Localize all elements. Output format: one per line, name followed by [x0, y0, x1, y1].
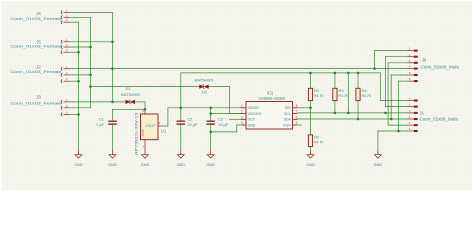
wire PGO stub	[298, 124, 302, 126]
svg-text:GND: GND	[206, 163, 215, 167]
svg-text:GND: GND	[177, 163, 186, 167]
diode D2 BAT54WS	[126, 100, 135, 104]
wire IC GND riser	[236, 125, 238, 132]
svg-text:GND: GND	[248, 123, 256, 127]
connector J2 pin 1	[61, 67, 62, 70]
junction J2.3/bus78	[77, 80, 80, 83]
lead C2 top	[180, 108, 182, 121]
wire J2.2	[70, 74, 91, 76]
lead C3 top	[210, 108, 212, 121]
svg-text:1: 1	[241, 104, 243, 108]
connector J1 pin 2	[408, 106, 414, 108]
IC1 pin 3 (OUT)	[241, 118, 246, 120]
connector J6 pin 6	[408, 80, 414, 82]
wire DIR to R1/R2	[298, 107, 311, 109]
connector J3 pin 1	[61, 100, 62, 103]
lead R3 top	[334, 73, 336, 88]
wire J6 pin4 from rail	[375, 68, 408, 70]
wire J5.2	[70, 46, 91, 48]
svg-text:GND: GND	[306, 163, 315, 167]
wire J4.1 to bus112	[70, 11, 113, 13]
wire vertical rail branch	[347, 73, 349, 113]
svg-text:BAT54WS: BAT54WS	[195, 78, 214, 83]
junction SDA riser	[390, 118, 393, 121]
junction J5.2/bus90	[89, 46, 92, 49]
svg-text:R4.7K: R4.7K	[362, 93, 372, 98]
svg-text:PGO: PGO	[283, 123, 291, 127]
resistor R1 body	[308, 88, 312, 100]
junction rail/R4	[357, 72, 360, 75]
wire IC GND return	[211, 131, 237, 133]
svg-text:Conn_01x03_Female: Conn_01x03_Female	[10, 44, 62, 49]
junction rail/R1	[309, 72, 312, 75]
junction rail/bus112	[111, 67, 114, 70]
svg-text:GND: GND	[74, 163, 83, 167]
wire J4.3 to bus78	[70, 21, 79, 23]
wire J5.3	[70, 51, 79, 53]
wire J3.3 to bus78	[70, 113, 79, 115]
svg-text:GND: GND	[141, 128, 145, 136]
diode D1 BAT54WS	[200, 85, 209, 89]
junction J2.2/bus90	[89, 74, 92, 77]
wire U1 VOUT out	[164, 125, 168, 127]
ground GND4 (C2)	[177, 151, 184, 158]
wire line2 to IC pin2	[211, 113, 241, 115]
svg-text:R4.7K: R4.7K	[314, 93, 324, 98]
schematic canvas background	[2, 1, 472, 191]
riser J6.5 to SDA	[390, 75, 392, 119]
svg-text:R4.7K: R4.7K	[339, 93, 349, 98]
connector J4 pin 1	[61, 11, 62, 14]
svg-text:C3: C3	[218, 116, 224, 121]
junction U1 VIN node	[144, 108, 147, 111]
svg-text:1 µF: 1 µF	[96, 122, 105, 127]
resistor R2 body	[308, 135, 312, 147]
junction J5.3/bus78	[77, 51, 80, 54]
bus90 vertical	[90, 17, 92, 108]
wire J5.1	[70, 41, 113, 43]
wire SDA row	[298, 118, 408, 120]
wire J6 pin3	[388, 62, 407, 64]
svg-text:BAT54WS: BAT54WS	[121, 92, 140, 97]
svg-text:D1: D1	[202, 90, 208, 95]
svg-text:GND: GND	[141, 163, 150, 167]
wire J1 pin2	[386, 106, 408, 108]
svg-text:Conn_01x03_Female: Conn_01x03_Female	[10, 100, 62, 105]
IC1 pin 8 (DIR)	[293, 107, 298, 109]
junction SCL riser	[384, 112, 387, 115]
connector J1 pin 5	[408, 124, 414, 126]
svg-text:Conn_01x06_Male: Conn_01x06_Male	[421, 65, 460, 70]
lead C1 bottom to GND	[112, 124, 114, 151]
svg-text:J6: J6	[422, 57, 427, 62]
riser J6.3 to J1.5	[387, 63, 389, 125]
junction line1/C2/rail	[180, 107, 183, 110]
IC1 pin 1 (VDD5V)	[241, 107, 246, 109]
wire J4.2 to bus90	[70, 16, 91, 18]
wire J6 pin2	[386, 56, 408, 58]
IC U1? no: IC1 AS5600 body	[246, 102, 293, 130]
IC1 pin 7 (SCL)	[293, 113, 298, 115]
svg-text:Conn_01x03_Female: Conn_01x03_Female	[10, 69, 62, 74]
connector J4 pin 2	[61, 16, 62, 19]
IC1 pin 2 (VDD3V3)	[241, 113, 246, 115]
svg-text:OUT: OUT	[248, 118, 256, 122]
junction J3.1/bus112	[111, 101, 114, 104]
wire into IC pin4	[237, 124, 241, 126]
svg-text:VOUT: VOUT	[145, 124, 155, 128]
junction J6.6/J1.6 gnd row	[397, 130, 400, 133]
connector J6 pin 5	[408, 74, 414, 76]
junction SCL/R3	[334, 112, 337, 115]
wire SCL row	[298, 112, 408, 114]
wire D1 cathode right	[209, 86, 230, 88]
svg-text:D2: D2	[125, 86, 131, 91]
connector J1 pin 4	[408, 118, 414, 120]
connector J6 pin 3	[408, 62, 414, 64]
wire J2.1 power rail to J6	[70, 68, 375, 70]
lead C1 top	[112, 109, 114, 121]
svg-text:SDA: SDA	[284, 118, 292, 122]
svg-text:AS5600-ASOM: AS5600-ASOM	[259, 96, 285, 101]
junction J5.1/bus112	[111, 41, 114, 44]
svg-text:10 µF: 10 µF	[218, 122, 229, 127]
lead R1 top	[310, 73, 312, 88]
bus78 vertical to GND	[78, 22, 80, 151]
svg-text:3: 3	[241, 115, 243, 119]
lead C2 bottom to GND	[180, 124, 182, 151]
svg-text:8: 8	[296, 104, 298, 108]
wire J3.1 to D2	[70, 101, 126, 103]
connector J5 pin 2	[61, 45, 62, 48]
bus112 vertical	[112, 12, 114, 102]
junction C3 gnd/IC gnd	[209, 131, 212, 134]
wire J3.2 to bus90	[70, 107, 91, 109]
svg-text:5: 5	[296, 121, 298, 125]
connector J1 pin 3	[408, 112, 414, 114]
junction bus90/D1 wire	[89, 85, 92, 88]
resistor R4 body	[356, 88, 360, 100]
regulator U1 body	[141, 114, 159, 140]
lead C3 bottom to GND	[210, 124, 212, 151]
ground GND7 (J1)	[375, 151, 382, 158]
U1 VIN pin	[144, 109, 146, 114]
lead R4 top	[357, 73, 359, 88]
riser J6.2 to J1.2	[385, 57, 387, 107]
svg-text:2: 2	[241, 110, 243, 114]
connector J6 pin 1	[408, 50, 414, 52]
svg-text:10 µF: 10 µF	[187, 122, 198, 127]
ground GND6 (R2)	[307, 151, 314, 158]
connector J2 pin 2	[61, 73, 62, 76]
junction rail A / J6.1 riser	[373, 67, 376, 70]
capacitor C2 plates	[177, 120, 186, 122]
wire 3V3 pullup rail	[181, 72, 380, 74]
wire 3V3 line1 to IC pin1	[168, 107, 241, 109]
svg-text:U1: U1	[161, 129, 167, 134]
wire J1 pin5	[388, 124, 407, 126]
ground GND1	[75, 151, 82, 158]
junction SCL/V0	[347, 112, 350, 115]
svg-text:Conn_01x06_Male: Conn_01x06_Male	[420, 117, 459, 122]
svg-text:VDD5V: VDD5V	[248, 106, 260, 110]
svg-text:GND: GND	[108, 163, 117, 167]
riser J6.6 to J1.6	[398, 81, 400, 131]
U1 VOUT pin	[158, 125, 164, 127]
svg-text:C1: C1	[99, 116, 105, 121]
connector J3 pin 2	[61, 106, 62, 109]
IC1 pin 4 (GND)	[241, 124, 246, 126]
svg-text:C2: C2	[187, 116, 193, 121]
junction J3.3/bus78	[77, 113, 80, 116]
connector J1 pin 1	[408, 100, 414, 102]
ground GND3 (U1)	[142, 151, 149, 158]
svg-text:J3: J3	[36, 95, 41, 100]
connector J4 pin 3	[61, 21, 62, 24]
connector J1 pin 6	[408, 130, 414, 132]
connector J6 pin 2	[408, 56, 414, 58]
wire IC pin3 OUT stub	[230, 118, 241, 120]
junction rail/R3	[334, 72, 337, 75]
junction rail/V0 top	[347, 72, 350, 75]
svg-text:DIR: DIR	[285, 106, 292, 110]
connector J6 pin 4	[408, 68, 414, 70]
wire rail riser at C2	[180, 73, 182, 108]
riser to J6.1	[374, 51, 376, 69]
capacitor C3 plates	[206, 120, 215, 122]
U1 GND pin	[144, 140, 146, 151]
wire into IC pin2	[230, 113, 241, 115]
wire C1 top to U1 VIN	[113, 108, 146, 110]
ground GND5 (C3)	[207, 151, 214, 158]
lead R1 bottom	[310, 101, 312, 108]
junction DIR/R1/R2	[309, 107, 312, 110]
wire J2.3	[70, 80, 79, 82]
wire J1 pin6 gnd row	[378, 130, 408, 132]
ground GND2	[109, 151, 116, 158]
junction SDA/R4	[357, 118, 360, 121]
capacitor C1 plates	[108, 120, 117, 122]
svg-text:Conn_01x03_Female: Conn_01x03_Female	[10, 16, 62, 21]
svg-text:4: 4	[241, 121, 243, 125]
svg-text:R4.7K: R4.7K	[314, 140, 324, 145]
wire VOUT up	[167, 108, 169, 126]
wire J6 pin6	[399, 80, 408, 82]
svg-text:SCL: SCL	[284, 112, 291, 116]
lead R4 bottom	[357, 101, 359, 119]
wire D1 down to IC pin2	[229, 87, 231, 114]
IC1 pin 5 (PGO)	[293, 124, 298, 126]
wire bus90 to D1 anode	[91, 86, 200, 88]
wire D2 cathode	[135, 101, 145, 103]
svg-text:VDD3V3: VDD3V3	[248, 112, 262, 116]
connector J5 pin 1	[61, 40, 62, 43]
wire down to U1 VIN node	[144, 102, 146, 109]
resistor R3 body	[333, 88, 337, 100]
lead R2 top	[310, 108, 312, 135]
IC1 pin 6 (SDA)	[293, 118, 298, 120]
junction line1/C3	[209, 107, 212, 110]
svg-text:J1: J1	[420, 111, 425, 116]
wire rail down to J1.1	[379, 73, 381, 101]
wire down to GND right	[377, 131, 379, 151]
wire to J1 pin1	[380, 100, 407, 102]
connector J3 pin 3	[61, 113, 62, 116]
lead R3 bottom	[334, 101, 336, 113]
wire J6 pin1	[375, 50, 408, 52]
connector J2 pin 3	[61, 80, 62, 83]
svg-text:GND: GND	[374, 163, 383, 167]
lead R2 bottom	[310, 147, 312, 152]
junction C3 lead/line2	[209, 112, 212, 115]
wire J6 pin5	[391, 74, 407, 76]
svg-text:AP7381G-33V-13: AP7381G-33V-13	[134, 112, 139, 156]
connector J5 pin 3	[61, 51, 62, 54]
